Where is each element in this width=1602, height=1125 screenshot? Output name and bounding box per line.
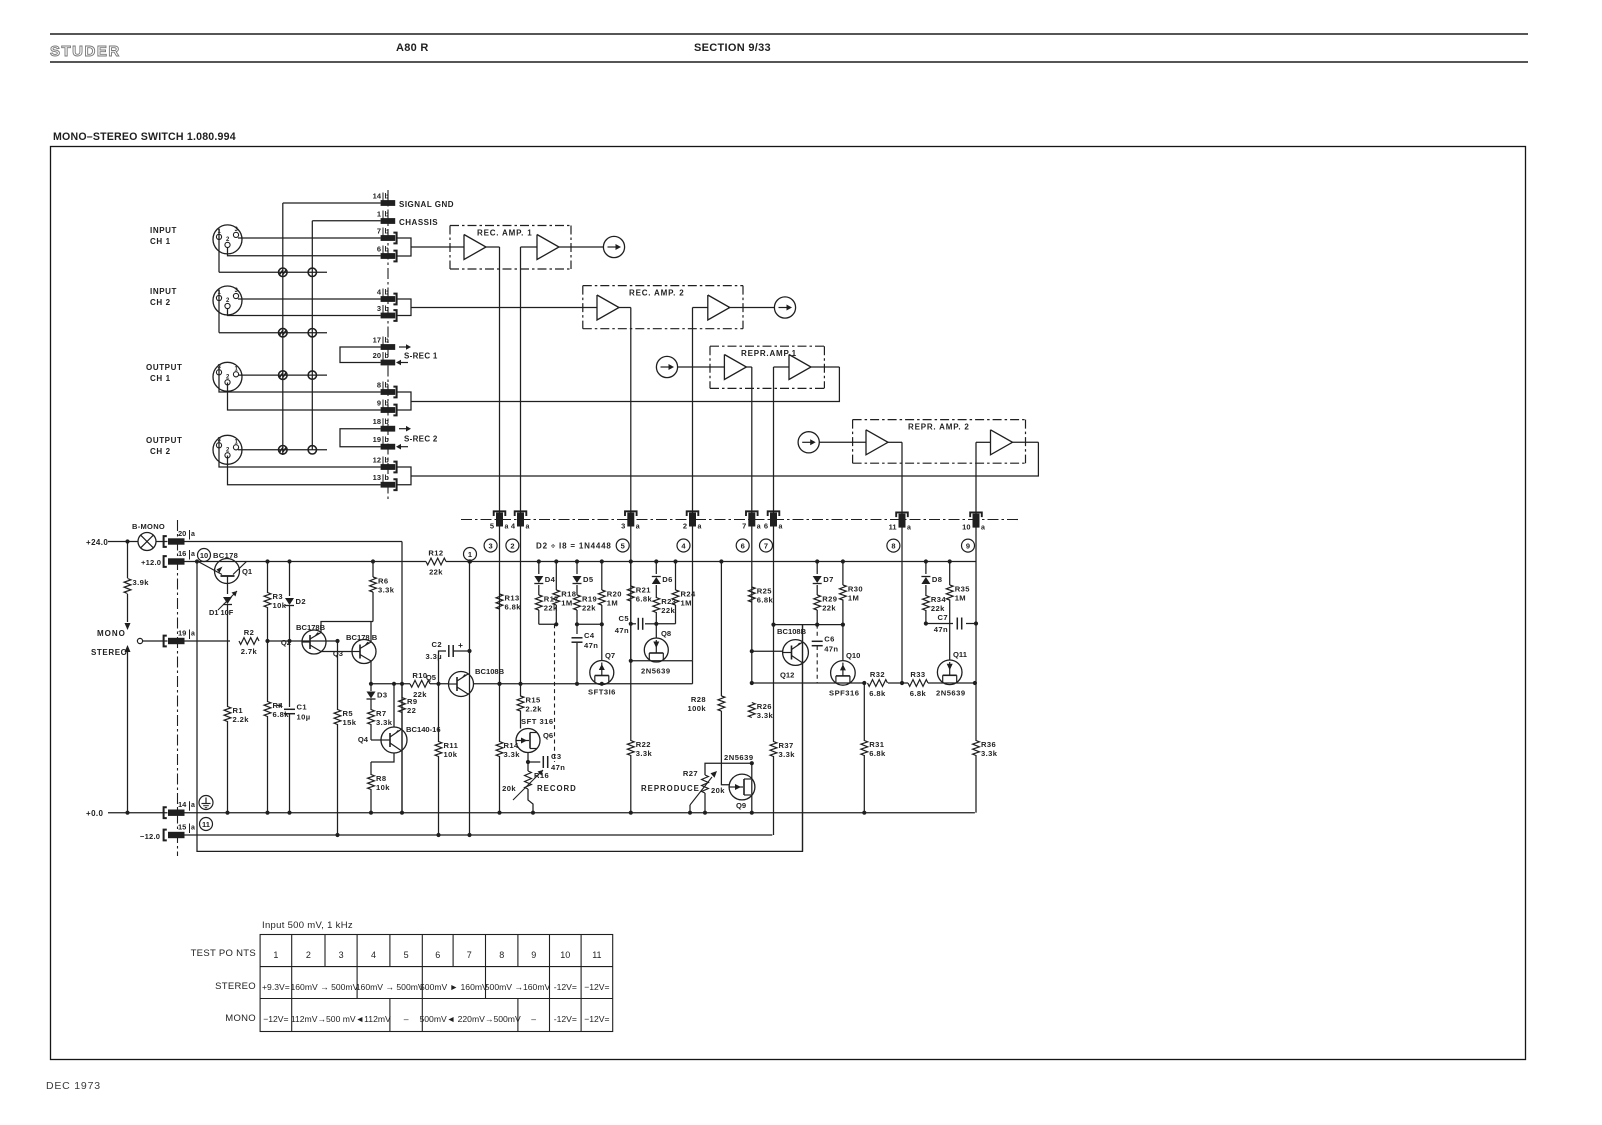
svg-text:1M: 1M — [681, 599, 692, 608]
svg-text:+0.0: +0.0 — [86, 809, 104, 818]
svg-text:REC. AMP. 1: REC. AMP. 1 — [477, 229, 532, 238]
svg-text:10: 10 — [962, 523, 970, 532]
svg-text:160mV → 500mV: 160mV → 500mV — [356, 982, 424, 992]
svg-text:C6: C6 — [824, 635, 835, 644]
svg-text:10k: 10k — [444, 750, 458, 759]
svg-text:D7: D7 — [823, 575, 834, 584]
svg-text:-12V=: -12V= — [554, 1014, 577, 1024]
svg-text:b: b — [385, 401, 389, 408]
svg-text:Q9: Q9 — [736, 801, 746, 810]
svg-text:b: b — [385, 419, 389, 426]
svg-text:a: a — [191, 551, 195, 558]
svg-text:+12.0: +12.0 — [141, 558, 161, 567]
svg-text:R12: R12 — [428, 549, 443, 558]
svg-text:R6: R6 — [378, 577, 389, 586]
svg-text:a: a — [907, 525, 911, 532]
svg-text:R35: R35 — [955, 585, 971, 594]
svg-text:47n: 47n — [551, 763, 565, 772]
svg-text:R18: R18 — [561, 590, 576, 599]
svg-text:3.3k: 3.3k — [504, 750, 521, 759]
svg-text:RECORD: RECORD — [537, 784, 577, 793]
svg-text:SPF316: SPF316 — [829, 689, 859, 698]
svg-text:R33: R33 — [910, 670, 925, 679]
svg-text:a: a — [779, 524, 783, 531]
svg-text:5: 5 — [404, 950, 409, 960]
svg-text:+: + — [277, 701, 283, 711]
svg-text:CHASSIS: CHASSIS — [399, 218, 438, 227]
svg-text:1: 1 — [377, 210, 381, 219]
svg-text:R8: R8 — [376, 774, 387, 783]
svg-text:14: 14 — [373, 192, 382, 201]
svg-text:Q11: Q11 — [953, 650, 968, 659]
svg-text:R32: R32 — [870, 670, 885, 679]
svg-text:7: 7 — [764, 541, 768, 550]
svg-text:1: 1 — [468, 550, 472, 559]
svg-text:6: 6 — [435, 950, 440, 960]
svg-text:2N5639: 2N5639 — [936, 689, 966, 698]
svg-text:15: 15 — [178, 823, 186, 832]
svg-text:R31: R31 — [869, 740, 885, 749]
svg-text:D8: D8 — [932, 575, 943, 584]
svg-text:R26: R26 — [757, 702, 772, 711]
svg-text:C3: C3 — [551, 752, 562, 761]
svg-text:9: 9 — [377, 399, 381, 408]
svg-text:3.3k: 3.3k — [378, 586, 395, 595]
svg-text:S-REC 1: S-REC 1 — [404, 352, 438, 361]
svg-text:22k: 22k — [429, 568, 443, 577]
svg-text:CH 2: CH 2 — [150, 447, 171, 456]
svg-text:10µ: 10µ — [297, 713, 311, 722]
svg-text:R15: R15 — [526, 696, 542, 705]
svg-text:INPUT: INPUT — [150, 287, 177, 296]
svg-text:3: 3 — [621, 522, 625, 531]
svg-text:R2: R2 — [244, 628, 255, 637]
svg-text:a: a — [191, 531, 195, 538]
svg-text:5: 5 — [621, 541, 625, 550]
svg-text:Q4: Q4 — [358, 735, 369, 744]
svg-text:TEST PO NTS: TEST PO NTS — [191, 948, 256, 959]
svg-text:2.2k: 2.2k — [526, 705, 543, 714]
svg-text:b: b — [385, 458, 389, 465]
svg-text:8: 8 — [377, 381, 381, 390]
svg-text:22k: 22k — [822, 604, 836, 613]
svg-text:6.8k: 6.8k — [505, 603, 522, 612]
svg-text:10k: 10k — [376, 783, 390, 792]
svg-text:Q12: Q12 — [780, 671, 794, 680]
svg-text:b: b — [385, 475, 389, 482]
svg-text:R22: R22 — [636, 740, 651, 749]
svg-text:D6: D6 — [662, 575, 673, 584]
svg-text:CH 1: CH 1 — [150, 237, 171, 246]
svg-text:22: 22 — [407, 706, 416, 715]
svg-text:160mV → 500mV: 160mV → 500mV — [290, 982, 358, 992]
svg-text:6: 6 — [764, 522, 768, 531]
svg-text:BC178 B: BC178 B — [346, 633, 378, 642]
svg-text:13: 13 — [373, 473, 381, 482]
svg-text:R3: R3 — [273, 592, 284, 601]
svg-text:11: 11 — [889, 523, 897, 532]
svg-text:MONO: MONO — [97, 629, 126, 638]
svg-text:3.3µ: 3.3µ — [425, 652, 442, 661]
svg-text:16: 16 — [178, 549, 186, 558]
svg-text:20: 20 — [373, 351, 381, 360]
svg-text:12: 12 — [373, 456, 381, 465]
svg-text:–: – — [531, 1014, 536, 1024]
svg-text:STEREO: STEREO — [91, 648, 128, 657]
svg-text:b: b — [385, 229, 389, 236]
svg-text:CH 1: CH 1 — [150, 374, 171, 383]
svg-text:b: b — [385, 306, 389, 313]
svg-text:R16: R16 — [534, 771, 549, 780]
svg-text:R11: R11 — [444, 741, 459, 750]
svg-text:10k: 10k — [273, 601, 287, 610]
svg-text:7: 7 — [377, 227, 381, 236]
svg-text:8: 8 — [499, 950, 504, 960]
svg-text:11: 11 — [202, 820, 210, 829]
svg-text:B-MONO: B-MONO — [132, 522, 165, 531]
svg-text:20k: 20k — [711, 786, 725, 795]
svg-text:INPUT: INPUT — [150, 226, 177, 235]
svg-text:C1: C1 — [297, 703, 308, 712]
svg-text:b: b — [385, 194, 389, 201]
svg-text:REPR. AMP. 2: REPR. AMP. 2 — [908, 423, 970, 432]
svg-text:R34: R34 — [931, 595, 947, 604]
svg-text:6: 6 — [377, 245, 381, 254]
svg-text:112mV→500 mV◄112mV: 112mV→500 mV◄112mV — [291, 1014, 391, 1024]
svg-text:C2: C2 — [431, 640, 442, 649]
svg-text:14: 14 — [178, 800, 187, 809]
svg-text:b: b — [385, 338, 389, 345]
svg-text:19: 19 — [178, 629, 186, 638]
svg-text:22k: 22k — [931, 604, 945, 613]
svg-text:R9: R9 — [407, 697, 418, 706]
svg-text:6.8k: 6.8k — [869, 749, 886, 758]
svg-text:a: a — [191, 802, 195, 809]
svg-text:DEC 1973: DEC 1973 — [46, 1080, 101, 1092]
svg-text:+24.0: +24.0 — [86, 538, 108, 547]
svg-text:a: a — [191, 825, 195, 832]
svg-text:Q6: Q6 — [543, 731, 553, 740]
svg-text:BC108B: BC108B — [475, 667, 505, 676]
svg-text:MONO–STEREO SWITCH 1.080.994: MONO–STEREO SWITCH 1.080.994 — [53, 131, 236, 143]
svg-text:D5: D5 — [583, 575, 594, 584]
svg-text:b: b — [385, 437, 389, 444]
svg-text:b: b — [385, 212, 389, 219]
svg-text:C4: C4 — [584, 631, 595, 640]
svg-text:Q10: Q10 — [846, 651, 860, 660]
svg-text:3: 3 — [339, 950, 344, 960]
svg-text:−12V=: −12V= — [584, 1014, 609, 1024]
svg-text:7: 7 — [467, 950, 472, 960]
svg-text:3.9k: 3.9k — [133, 578, 150, 587]
svg-text:R14: R14 — [504, 741, 520, 750]
svg-text:STEREO: STEREO — [215, 981, 256, 992]
svg-text:S-REC 2: S-REC 2 — [404, 435, 438, 444]
svg-text:MONO: MONO — [225, 1013, 256, 1024]
svg-text:Q2: Q2 — [281, 638, 291, 647]
svg-text:a: a — [526, 524, 530, 531]
svg-text:b: b — [385, 247, 389, 254]
svg-text:CH 2: CH 2 — [150, 298, 171, 307]
svg-text:7: 7 — [742, 522, 746, 531]
svg-text:a: a — [636, 524, 640, 531]
svg-text:Q8: Q8 — [661, 629, 671, 638]
svg-text:−12.0: −12.0 — [140, 832, 160, 841]
svg-text:9: 9 — [531, 950, 536, 960]
svg-text:500mV ► 160mV: 500mV ► 160mV — [420, 982, 488, 992]
svg-text:500mV →160mV: 500mV →160mV — [485, 982, 551, 992]
svg-text:9: 9 — [966, 541, 970, 550]
svg-text:2.7k: 2.7k — [241, 647, 258, 656]
svg-text:3.3k: 3.3k — [376, 718, 393, 727]
svg-text:C5: C5 — [618, 614, 629, 623]
svg-text:3.3k: 3.3k — [981, 749, 998, 758]
svg-text:+: + — [458, 640, 463, 650]
svg-text:Input 500 mV, 1 kHz: Input 500 mV, 1 kHz — [262, 920, 353, 931]
svg-text:3.3k: 3.3k — [636, 749, 653, 758]
svg-text:47n: 47n — [934, 625, 948, 634]
svg-text:REC. AMP. 2: REC. AMP. 2 — [629, 289, 684, 298]
svg-text:1M: 1M — [955, 594, 966, 603]
svg-text:6.8k: 6.8k — [636, 595, 653, 604]
svg-text:−12V=: −12V= — [263, 1014, 288, 1024]
svg-text:a: a — [698, 524, 702, 531]
svg-text:3: 3 — [377, 304, 381, 313]
svg-text:6.8k: 6.8k — [869, 689, 886, 698]
svg-text:3.3k: 3.3k — [757, 711, 774, 720]
svg-text:8: 8 — [891, 541, 895, 550]
svg-text:6.8k: 6.8k — [273, 710, 290, 719]
svg-text:SFT 316: SFT 316 — [521, 717, 554, 726]
svg-text:5: 5 — [490, 522, 494, 531]
svg-text:2N5639: 2N5639 — [724, 753, 754, 762]
svg-text:11: 11 — [592, 950, 601, 960]
svg-text:1: 1 — [273, 950, 278, 960]
svg-text:10: 10 — [200, 551, 208, 560]
svg-text:R13: R13 — [505, 594, 520, 603]
svg-text:R29: R29 — [822, 595, 837, 604]
svg-text:SFT3I6: SFT3I6 — [588, 688, 616, 697]
svg-text:b: b — [385, 290, 389, 297]
svg-text:1M: 1M — [607, 599, 618, 608]
svg-text:47n: 47n — [615, 626, 629, 635]
svg-text:R37: R37 — [779, 741, 794, 750]
svg-text:22k: 22k — [661, 606, 675, 615]
svg-text:a: a — [191, 631, 195, 638]
svg-text:6.8k: 6.8k — [757, 596, 774, 605]
svg-text:−12V=: −12V= — [584, 982, 609, 992]
svg-text:REPRODUCE: REPRODUCE — [641, 784, 700, 793]
svg-text:R7: R7 — [376, 709, 387, 718]
svg-text:Q5: Q5 — [426, 673, 437, 682]
svg-text:BC140-16: BC140-16 — [406, 725, 441, 734]
svg-text:19: 19 — [373, 435, 381, 444]
svg-text:47n: 47n — [824, 645, 838, 654]
svg-text:b: b — [385, 383, 389, 390]
svg-text:47n: 47n — [584, 641, 598, 650]
svg-text:STUDER: STUDER — [50, 43, 121, 60]
svg-text:22k: 22k — [582, 604, 596, 613]
svg-text:R28: R28 — [691, 695, 706, 704]
svg-text:C7: C7 — [937, 613, 948, 622]
svg-text:R36: R36 — [981, 740, 996, 749]
svg-text:R20: R20 — [607, 590, 622, 599]
svg-text:18: 18 — [373, 417, 381, 426]
svg-text:D4: D4 — [545, 575, 556, 584]
svg-text:D1 10F: D1 10F — [209, 608, 234, 617]
svg-text:D2 ÷ I8 = 1N4448: D2 ÷ I8 = 1N4448 — [536, 542, 612, 551]
svg-text:a: a — [505, 524, 509, 531]
svg-text:OUTPUT: OUTPUT — [146, 436, 183, 445]
svg-text:A80 R: A80 R — [396, 42, 429, 54]
svg-text:a: a — [757, 524, 761, 531]
svg-text:+9.3V=: +9.3V= — [262, 982, 290, 992]
svg-text:R19: R19 — [582, 595, 597, 604]
svg-text:2N5639: 2N5639 — [641, 667, 671, 676]
svg-text:R1: R1 — [233, 706, 244, 715]
svg-text:20: 20 — [178, 529, 186, 538]
svg-text:2: 2 — [683, 522, 687, 531]
svg-text:3: 3 — [489, 541, 493, 550]
svg-text:500mV◄ 220mV→500mV: 500mV◄ 220mV→500mV — [420, 1014, 521, 1024]
svg-text:R27: R27 — [683, 769, 698, 778]
svg-text:10: 10 — [560, 950, 570, 960]
svg-text:R21: R21 — [636, 586, 652, 595]
svg-text:3.3k: 3.3k — [779, 750, 796, 759]
svg-text:1M: 1M — [561, 599, 572, 608]
svg-text:–: – — [404, 1014, 409, 1024]
svg-text:Q3: Q3 — [333, 649, 343, 658]
svg-text:OUTPUT: OUTPUT — [146, 363, 183, 372]
svg-text:Q7: Q7 — [605, 651, 615, 660]
svg-text:R30: R30 — [848, 585, 863, 594]
svg-text:2.2k: 2.2k — [233, 715, 250, 724]
svg-text:b: b — [385, 353, 389, 360]
svg-text:2: 2 — [306, 950, 311, 960]
svg-text:1M: 1M — [848, 594, 859, 603]
svg-text:-12V=: -12V= — [554, 982, 577, 992]
svg-text:SIGNAL GND: SIGNAL GND — [399, 200, 454, 209]
svg-text:6: 6 — [741, 541, 745, 550]
svg-text:Q1: Q1 — [242, 567, 253, 576]
svg-text:D3: D3 — [377, 691, 388, 700]
svg-text:SECTION 9/33: SECTION 9/33 — [694, 42, 771, 54]
svg-text:20k: 20k — [502, 784, 516, 793]
svg-text:R25: R25 — [757, 587, 773, 596]
svg-text:D2: D2 — [296, 597, 307, 606]
svg-text:4: 4 — [371, 950, 376, 960]
svg-text:R24: R24 — [681, 590, 697, 599]
svg-text:2: 2 — [510, 541, 514, 550]
svg-text:R5: R5 — [343, 709, 354, 718]
svg-text:a: a — [981, 525, 985, 532]
svg-text:6.8k: 6.8k — [910, 689, 927, 698]
svg-text:17: 17 — [373, 336, 381, 345]
svg-text:15k: 15k — [343, 718, 357, 727]
svg-text:100k: 100k — [688, 704, 707, 713]
